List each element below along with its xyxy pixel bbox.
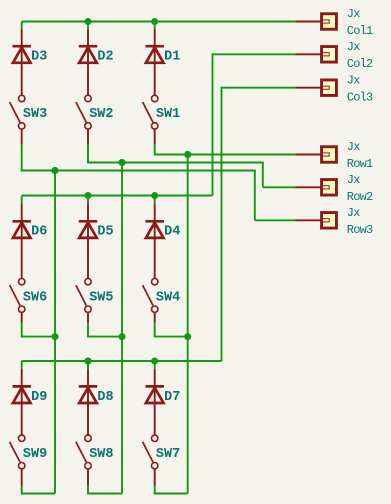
wire Row2 pin stub [296,186,322,188]
junction D8 cathode / Col3 bus [85,358,92,365]
svg-text:Jx: Jx [347,206,360,220]
wire Row3 horizontal to pin [255,219,296,221]
svg-text:SW5: SW5 [89,290,113,305]
junction SW5 / column line [119,333,126,340]
junction D5 cathode / Col2 bus [85,192,92,199]
junction SW3 / column line [52,167,59,174]
wire Col2 horizontal [213,53,296,55]
svg-text:D5: D5 [97,225,113,240]
svg-text:SW6: SW6 [23,290,47,305]
wire Row1 horizontal from SW1 [155,154,296,156]
svg-text:SW7: SW7 [156,447,180,462]
svg-text:Col2: Col2 [347,57,373,71]
wire D6 anode stub [21,196,23,204]
svg-text:D3: D3 [31,50,47,65]
wire Col2 pin stub [296,53,322,55]
wire Col3 pin stub [296,87,322,89]
wire Row1 vertical column line [187,155,189,494]
svg-text:Jx: Jx [347,7,360,21]
switch SW7 [143,435,158,486]
switch SW2 [76,95,91,144]
svg-text:D2: D2 [97,50,113,65]
diode D5 [79,204,97,279]
wire Col2 vertical [212,53,214,195]
wire Col1 bus (top) [22,21,296,23]
wire Col1 pin stub [296,21,322,23]
wire D9 anode stub [21,361,23,369]
wire SW6 to row line [22,323,55,337]
diode D6 [13,204,31,279]
svg-text:Row3: Row3 [347,223,373,237]
wire Row3 vertical column line [54,171,56,494]
wire Col3 vertical [221,87,223,361]
connector pin Jx Row2 [322,180,337,196]
switch SW3 [10,95,25,144]
connector pin Jx Col2 [322,47,337,63]
diode D7 [146,369,164,435]
wire Row2 horizontal to pin [263,186,296,188]
wire Row3 pin stub [296,219,322,221]
svg-text:SW1: SW1 [156,107,180,122]
junction SW1 / column line [184,151,191,158]
wire Row3 horizontal from SW3 [22,170,255,172]
svg-text:Row2: Row2 [347,190,373,204]
junction SW6 / column line [52,333,59,340]
svg-text:Jx: Jx [347,73,360,87]
wire Row3 step-down vertical [254,170,256,221]
switch SW8 [76,435,91,486]
wire D2 anode stub [87,22,89,30]
wire D1 anode stub [154,22,156,30]
svg-text:D4: D4 [164,225,180,240]
wire Row2 horizontal from SW2 [88,162,263,164]
switch SW5 [76,279,91,324]
wire SW8 to row line [88,485,122,493]
svg-text:D8: D8 [97,390,113,405]
svg-text:Jx: Jx [347,40,360,54]
wire Col3 horizontal [222,87,296,89]
junction D1 cathode / Col1 bus [151,18,158,25]
wire SW1 to row line [155,144,188,154]
svg-text:Row1: Row1 [347,157,373,171]
svg-text:SW9: SW9 [23,447,47,462]
svg-text:Jx: Jx [347,173,360,187]
diode D4 [146,204,164,279]
junction D4 cathode / Col2 bus [151,192,158,199]
junction Row3 vertical / SW3 wire [52,167,59,174]
svg-text:D7: D7 [164,390,180,405]
switch SW6 [10,279,25,324]
junction Row2 vertical / SW2 wire [119,159,126,166]
junction SW2 / column line [119,159,126,166]
junction D2 cathode / Col1 bus [85,18,92,25]
svg-text:D1: D1 [164,50,180,65]
svg-text:Jx: Jx [347,140,360,154]
wire Col3 bus (row 3) [22,360,222,362]
connector pin Jx Row1 [322,147,337,163]
svg-text:D6: D6 [31,225,47,240]
wire SW9 to row line [22,485,55,493]
junction SW4 / column line [184,333,191,340]
svg-text:Col1: Col1 [347,24,373,38]
wire SW4 to row line [155,323,188,337]
wire SW2 to row line [88,144,122,162]
wire SW5 to row line [88,323,122,337]
svg-text:Col3: Col3 [347,90,373,104]
wire Row2 vertical column line [121,163,123,494]
junction D7 cathode / Col3 bus [151,358,158,365]
connector pin Jx Col1 [322,14,337,30]
junction Row1 vertical / SW1 wire [184,151,191,158]
switch SW9 [10,435,25,486]
svg-text:SW3: SW3 [23,107,47,122]
diode D1 [146,30,164,96]
wire D3 anode stub [21,22,23,30]
wire D5 anode stub [87,196,89,204]
svg-text:SW8: SW8 [89,447,113,462]
wire Row1 pin stub [296,154,322,156]
wire D8 anode stub [87,361,89,369]
diode D9 [13,369,31,435]
svg-text:SW4: SW4 [156,290,180,305]
wire SW7 to row line [155,485,188,493]
svg-text:SW2: SW2 [89,107,113,122]
wire SW3 to row line [22,144,55,170]
svg-text:D9: D9 [31,390,47,405]
wire D4 anode stub [154,196,156,204]
connector pin Jx Col3 [322,80,337,96]
connector pin Jx Row3 [322,213,337,229]
switch SW1 [143,95,158,144]
diode D8 [79,369,97,435]
wire Col2 bus (row 2) [22,195,213,197]
diode D2 [79,30,97,96]
wire D7 anode stub [154,361,156,369]
diode D3 [13,30,31,96]
wire Row2 step-down vertical [262,162,264,188]
switch SW4 [143,279,158,324]
